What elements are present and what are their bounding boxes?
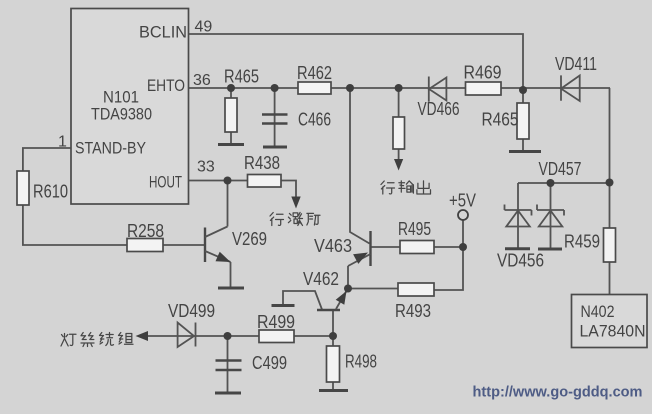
IC U1 N101 TDA9380 box: [71, 9, 189, 205]
svg-text:R465: R465: [224, 67, 259, 87]
resistor R258: [127, 239, 163, 252]
wire right rail vertical: [609, 88, 611, 295]
svg-text:C466: C466: [298, 110, 331, 130]
wire R465a branch: [230, 88, 232, 144]
resistor R495: [400, 241, 434, 254]
svg-text:R462: R462: [297, 63, 332, 83]
svg-text:V269: V269: [232, 229, 267, 249]
svg-text:36: 36: [193, 72, 211, 89]
resistor R469: [466, 82, 502, 95]
svg-text:BCLIN: BCLIN: [139, 23, 187, 42]
svg-text:N402: N402: [581, 302, 615, 321]
svg-text:http://www.go-gddq.com: http://www.go-gddq.com: [473, 384, 643, 401]
resistor R498: [327, 346, 340, 382]
svg-text:+5V: +5V: [449, 191, 476, 211]
node pin36-R465: [227, 84, 235, 92]
wire C499 branch: [227, 336, 229, 392]
wire +5V vertical: [434, 220, 463, 290]
wire R499 to V462 base junction: [294, 335, 333, 337]
arrow line-output down: [394, 159, 403, 171]
ground for R465 second: [509, 150, 541, 153]
wire V462 collector path: [283, 291, 322, 310]
anode bar for right zener: [538, 248, 562, 251]
resistor R459: [604, 228, 616, 262]
wire EHTO net: pin36 across to right rail: [189, 87, 611, 89]
svg-text:V462: V462: [303, 269, 339, 289]
wire R498 branch: [332, 336, 334, 389]
svg-text:VD466: VD466: [418, 99, 460, 119]
node right rail zener branch: [606, 179, 614, 187]
svg-text:HOUT: HOUT: [149, 173, 182, 192]
IC N402 LA7840N box: [572, 295, 648, 348]
svg-text:R438: R438: [244, 153, 280, 173]
wire line-output branch: [398, 88, 400, 161]
resistor R462: [298, 82, 331, 94]
capacitor C499: [216, 361, 242, 371]
wire C466 branch: [274, 88, 276, 146]
svg-text:R493: R493: [395, 301, 431, 321]
+5V supply terminal: [458, 210, 468, 220]
svg-text:STAND-BY: STAND-BY: [75, 139, 146, 158]
node line-output top: [395, 84, 403, 92]
wire BCLIN net: pin49 to node at x523: [189, 34, 524, 90]
label 灯丝绕组: [61, 333, 133, 347]
svg-text:R465: R465: [482, 110, 519, 130]
anode bar for left zener: [505, 247, 530, 250]
wire zener branch horizontal: [518, 182, 610, 184]
svg-text:R258: R258: [127, 221, 164, 241]
ground for C499: [215, 392, 241, 395]
ground for R498: [319, 389, 348, 392]
wire V463 base to +5V node: [372, 246, 464, 248]
resistor R438: [248, 175, 282, 188]
wire R258 to V269 base: [163, 244, 204, 246]
svg-text:VD457: VD457: [539, 159, 582, 179]
svg-text:EHTO: EHTO: [147, 76, 185, 95]
wire STAND-BY pin1 left and down through R610 to R258: [23, 148, 127, 245]
node V463 collector top: [346, 84, 354, 92]
svg-text:R459: R459: [564, 232, 600, 252]
ground for C466: [263, 146, 287, 149]
svg-text:R498: R498: [345, 352, 377, 372]
svg-text:V463: V463: [314, 236, 352, 256]
node +5V R495: [459, 243, 467, 251]
label 行输出: [381, 181, 431, 194]
wire filament line: [140, 335, 259, 337]
svg-text:R469: R469: [464, 63, 502, 83]
ground for R465 first: [218, 143, 244, 146]
svg-text:49: 49: [195, 19, 213, 36]
resistor line-output (unlabeled): [393, 117, 405, 149]
resistor R610: [17, 171, 29, 205]
svg-text:R610: R610: [33, 182, 68, 202]
svg-text:R499: R499: [257, 312, 295, 332]
zener diode VD457 right unit: [537, 183, 564, 249]
wire HOUT net: [189, 181, 297, 202]
resistor R465 first: [225, 98, 237, 132]
zener diode VD456 left unit: [505, 183, 532, 248]
chassis bar for V462 collector: [272, 304, 295, 307]
wire V462 base vertical: [332, 310, 334, 336]
transistor V462: [317, 309, 340, 311]
wire V463 emitter vertical: [347, 266, 349, 289]
wire node33 to V269 collector: [227, 181, 229, 227]
resistor R465 second: [517, 103, 529, 139]
node C466 top: [271, 84, 279, 92]
svg-text:LA7840N: LA7840N: [580, 322, 646, 341]
node zener2 top: [547, 179, 555, 187]
wire V463 collector vertical: [350, 88, 370, 244]
node BCLIN-R469-VD411: [519, 86, 527, 94]
node V462 base junction: [329, 332, 337, 340]
svg-text:R495: R495: [398, 219, 431, 239]
arrow to filament winding: [136, 331, 149, 341]
svg-text:TDA9380: TDA9380: [91, 105, 152, 124]
resistor R499: [259, 330, 294, 343]
wire node to R493: [348, 288, 398, 290]
wire R465b branch: [522, 90, 524, 151]
capacitor C466: [262, 115, 288, 124]
arrow line-drive down: [291, 197, 300, 209]
svg-text:1: 1: [58, 134, 67, 151]
label 行激励: [270, 212, 320, 225]
diode VD466: [429, 77, 447, 102]
diode VD499: [178, 323, 196, 348]
node C499 top: [224, 332, 232, 340]
transistor V269: [204, 228, 206, 263]
diode VD411: [561, 75, 580, 101]
svg-text:VD456: VD456: [497, 251, 544, 271]
svg-text:C499: C499: [252, 353, 287, 373]
node HOUT pin33: [224, 177, 232, 185]
resistor R493: [398, 283, 434, 296]
ground for V269: [218, 287, 244, 290]
node V463 emitter V462: [344, 285, 352, 293]
svg-text:VD411: VD411: [555, 54, 597, 74]
transistor V463: [369, 231, 371, 266]
svg-text:33: 33: [197, 159, 215, 176]
svg-text:VD499: VD499: [168, 301, 215, 321]
